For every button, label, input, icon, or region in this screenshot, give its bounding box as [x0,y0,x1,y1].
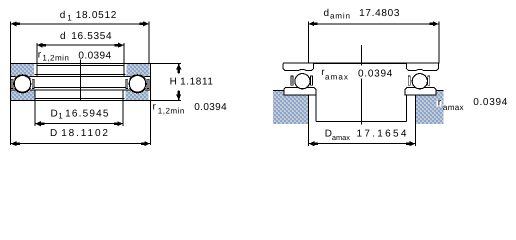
svg-text:D: D [51,108,58,119]
H extension line top [150,62,181,64]
svg-text:17.4803: 17.4803 [359,8,400,19]
svg-text:0.0394: 0.0394 [78,50,111,61]
top washer right section [406,63,438,70]
label r1,2min 0.0394 (bottom right) [153,101,228,115]
H label [170,77,214,88]
extension line d right [123,43,125,77]
D1 dimension line [35,123,123,125]
svg-text:D: D [50,128,57,139]
H arrow down [178,91,180,100]
arrow D1 left [35,121,44,126]
bore chamfer line [37,65,124,67]
bottom face line segments [11,76,151,78]
centre line of bearing [79,60,81,101]
svg-text:1: 1 [67,13,72,22]
extension line D1 left [34,90,36,126]
H arrow up [178,64,180,73]
svg-text:d: d [60,10,66,21]
dimension label D1 16.5945 [51,108,110,120]
extension line d left (bore edge top washer) [36,43,38,77]
bottom washer (housing washer) [11,87,151,100]
svg-text:18.0512: 18.0512 [76,10,117,21]
dimension label D_amax 17.1654 [325,129,409,142]
arrow d_amin left [309,21,318,26]
arrow d1 left [11,21,20,26]
svg-text:d: d [60,31,66,42]
label r_amax 0.0394 (right) [437,97,508,112]
top washer (shaft washer) [11,63,151,76]
bottom washer left section [284,88,316,96]
arrow d1 right [140,21,149,26]
arrow D_amax left [309,141,318,146]
svg-text:1.1811: 1.1811 [180,77,213,88]
svg-text:H: H [170,77,177,88]
svg-text:d: d [324,8,330,19]
extension line left edge (d1/D, bearing OD left) [10,21,12,145]
svg-text:0.0394: 0.0394 [358,69,393,80]
svg-text:amax: amax [332,133,350,142]
svg-text:amax: amax [325,72,349,81]
svg-text:16.5354: 16.5354 [71,31,112,42]
centre line (right diagram) [360,45,362,124]
cage marks ball left [291,76,313,85]
stipple fill left end [11,64,34,76]
bore wall left [315,95,317,121]
D dimension line [11,143,151,145]
arrow D1 right [114,121,123,126]
svg-text:1: 1 [58,112,63,121]
cage marks ball right [408,76,430,85]
svg-text:1,2min: 1,2min [42,54,69,63]
svg-text:1,2min: 1,2min [158,106,185,115]
svg-text:0.0394: 0.0394 [473,97,508,108]
ball right [128,74,148,94]
ball left [13,74,33,94]
dimension label D 18.1102 [50,128,110,139]
dimension line D_amax [309,143,416,145]
arrow D_amax right [406,141,415,146]
dimension line d_amin [308,23,439,25]
housing block left [273,91,309,124]
dimension line d1 [11,23,150,25]
dimension label d 16.5354 [60,31,112,42]
bottom face line [11,99,151,101]
shaft end face [316,121,406,123]
H extension line bottom [150,99,181,101]
cage marks left ball [11,79,34,88]
top washer left section [283,63,314,70]
bottom washer right section [405,88,436,96]
arrow D right [141,141,150,146]
dimension label d1 18.0512 [60,10,117,22]
dimension line d [37,44,124,46]
shaft washer top face line (spans both sections) [283,62,439,64]
svg-text:amin: amin [330,12,351,21]
housing block right [416,91,444,124]
arrow d left [37,43,46,48]
label r_amax 0.0394 (middle) [321,66,393,82]
top face line [11,62,151,64]
svg-text:17.1654: 17.1654 [357,129,409,140]
svg-text:16.5945: 16.5945 [65,108,110,119]
groove shoulder line [35,86,126,88]
label r1,2min 0.0394 (top) [38,50,112,63]
svg-text:18.1102: 18.1102 [61,128,110,139]
bore chamfer line [35,98,125,100]
groove shoulder line [35,73,126,75]
ball right (right diagram) [412,74,427,89]
extension line d1 right [148,21,150,63]
arrow d_amin right [429,21,438,26]
stipple fill right end [126,64,149,76]
extension line D_amax left [308,124,310,146]
svg-text:0.0394: 0.0394 [194,102,227,113]
extension line d_amin left [307,21,309,63]
extension line D1 right [122,90,124,126]
extension line d_amin right [438,21,440,63]
ball left (right diagram) [295,74,310,89]
extension line D_amax right [415,124,417,146]
svg-text:amax: amax [443,103,464,112]
dimension label d_amin 17.4803 [324,8,401,21]
arrow D left [11,141,20,146]
extension line right edge (bearing OD right / D) [149,63,151,145]
arrow d right [115,43,124,48]
bore wall right [405,95,407,121]
top face line segments [11,89,151,91]
cage marks right ball [126,79,149,88]
